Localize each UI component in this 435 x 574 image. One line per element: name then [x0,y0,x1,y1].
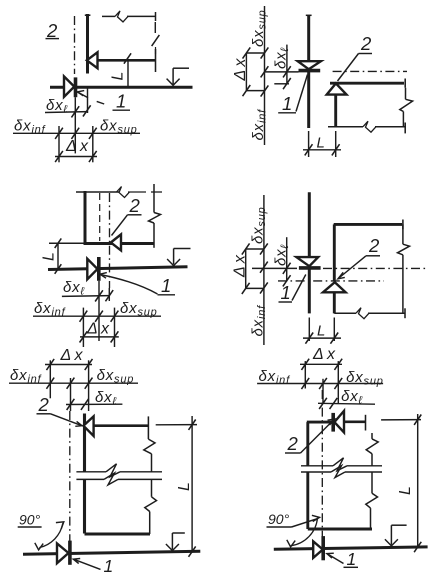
svg-text:2: 2 [38,394,50,415]
svg-text:δxℓ: δxℓ [272,244,291,266]
svg-text:δxℓ: δxℓ [63,279,85,298]
svg-text:L: L [397,486,414,495]
svg-text:δxinf: δxinf [250,109,269,141]
svg-text:1: 1 [347,549,357,569]
svg-text:δxsup: δxsup [250,206,269,244]
svg-text:2: 2 [368,235,380,256]
svg-text:Δ x: Δ x [60,347,84,364]
svg-text:Δ x: Δ x [65,138,89,155]
svg-text:L: L [41,252,58,261]
svg-text:1: 1 [116,91,126,112]
svg-text:δxsup: δxsup [250,9,269,47]
svg-text:1: 1 [281,282,291,303]
svg-text:90°: 90° [268,511,290,527]
svg-text:90°: 90° [19,512,41,528]
svg-text:1: 1 [282,93,292,114]
svg-text:Δ x: Δ x [232,254,249,278]
svg-text:Δ x: Δ x [86,321,110,338]
svg-text:L: L [110,72,127,81]
svg-text:L: L [317,323,325,340]
svg-text:Δ x: Δ x [312,346,336,363]
svg-text:2: 2 [360,33,372,54]
svg-text:L: L [317,135,325,152]
svg-text:2: 2 [287,433,299,454]
svg-text:δxsup: δxsup [346,369,384,388]
svg-text:1: 1 [161,275,171,296]
svg-text:Δ x: Δ x [232,58,249,82]
svg-text:L: L [176,482,193,491]
svg-text:2: 2 [46,20,58,41]
svg-text:2: 2 [129,195,141,216]
svg-text:δxinf: δxinf [250,305,269,337]
svg-text:δxℓ: δxℓ [273,47,292,69]
svg-text:1: 1 [104,556,114,574]
